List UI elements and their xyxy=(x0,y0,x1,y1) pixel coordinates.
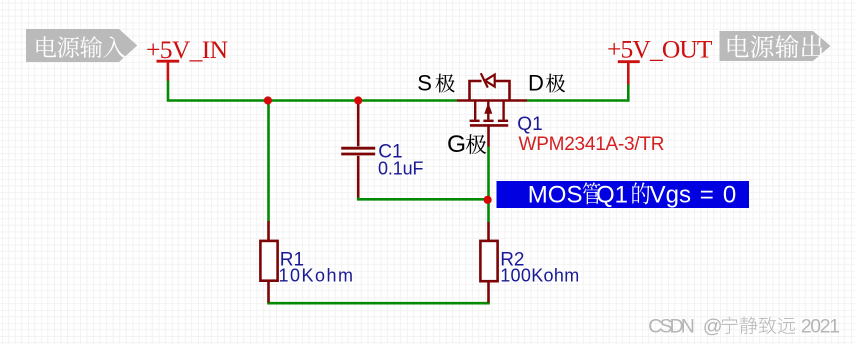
svg-text:+5V_OUT: +5V_OUT xyxy=(607,35,713,64)
svg-text:@: @ xyxy=(703,316,723,338)
svg-text:10Kohm: 10Kohm xyxy=(279,266,354,286)
svg-text:100Kohm: 100Kohm xyxy=(500,266,579,286)
svg-text:Vgs: Vgs xyxy=(650,182,691,209)
svg-text:=: = xyxy=(700,182,714,209)
svg-text:+5V_IN: +5V_IN xyxy=(146,35,228,64)
svg-text:0: 0 xyxy=(723,182,736,209)
svg-text:0.1uF: 0.1uF xyxy=(378,159,424,179)
svg-text:2021: 2021 xyxy=(801,316,840,338)
svg-text:Q1: Q1 xyxy=(517,114,542,135)
svg-text:G: G xyxy=(447,131,466,158)
svg-text:S: S xyxy=(417,70,432,95)
svg-text:CSDN: CSDN xyxy=(648,316,695,338)
svg-text:Q1: Q1 xyxy=(596,182,628,209)
svg-text:WPM2341A-3/TR: WPM2341A-3/TR xyxy=(519,134,665,155)
svg-text:MOS: MOS xyxy=(528,182,583,209)
svg-text:D: D xyxy=(528,70,544,95)
